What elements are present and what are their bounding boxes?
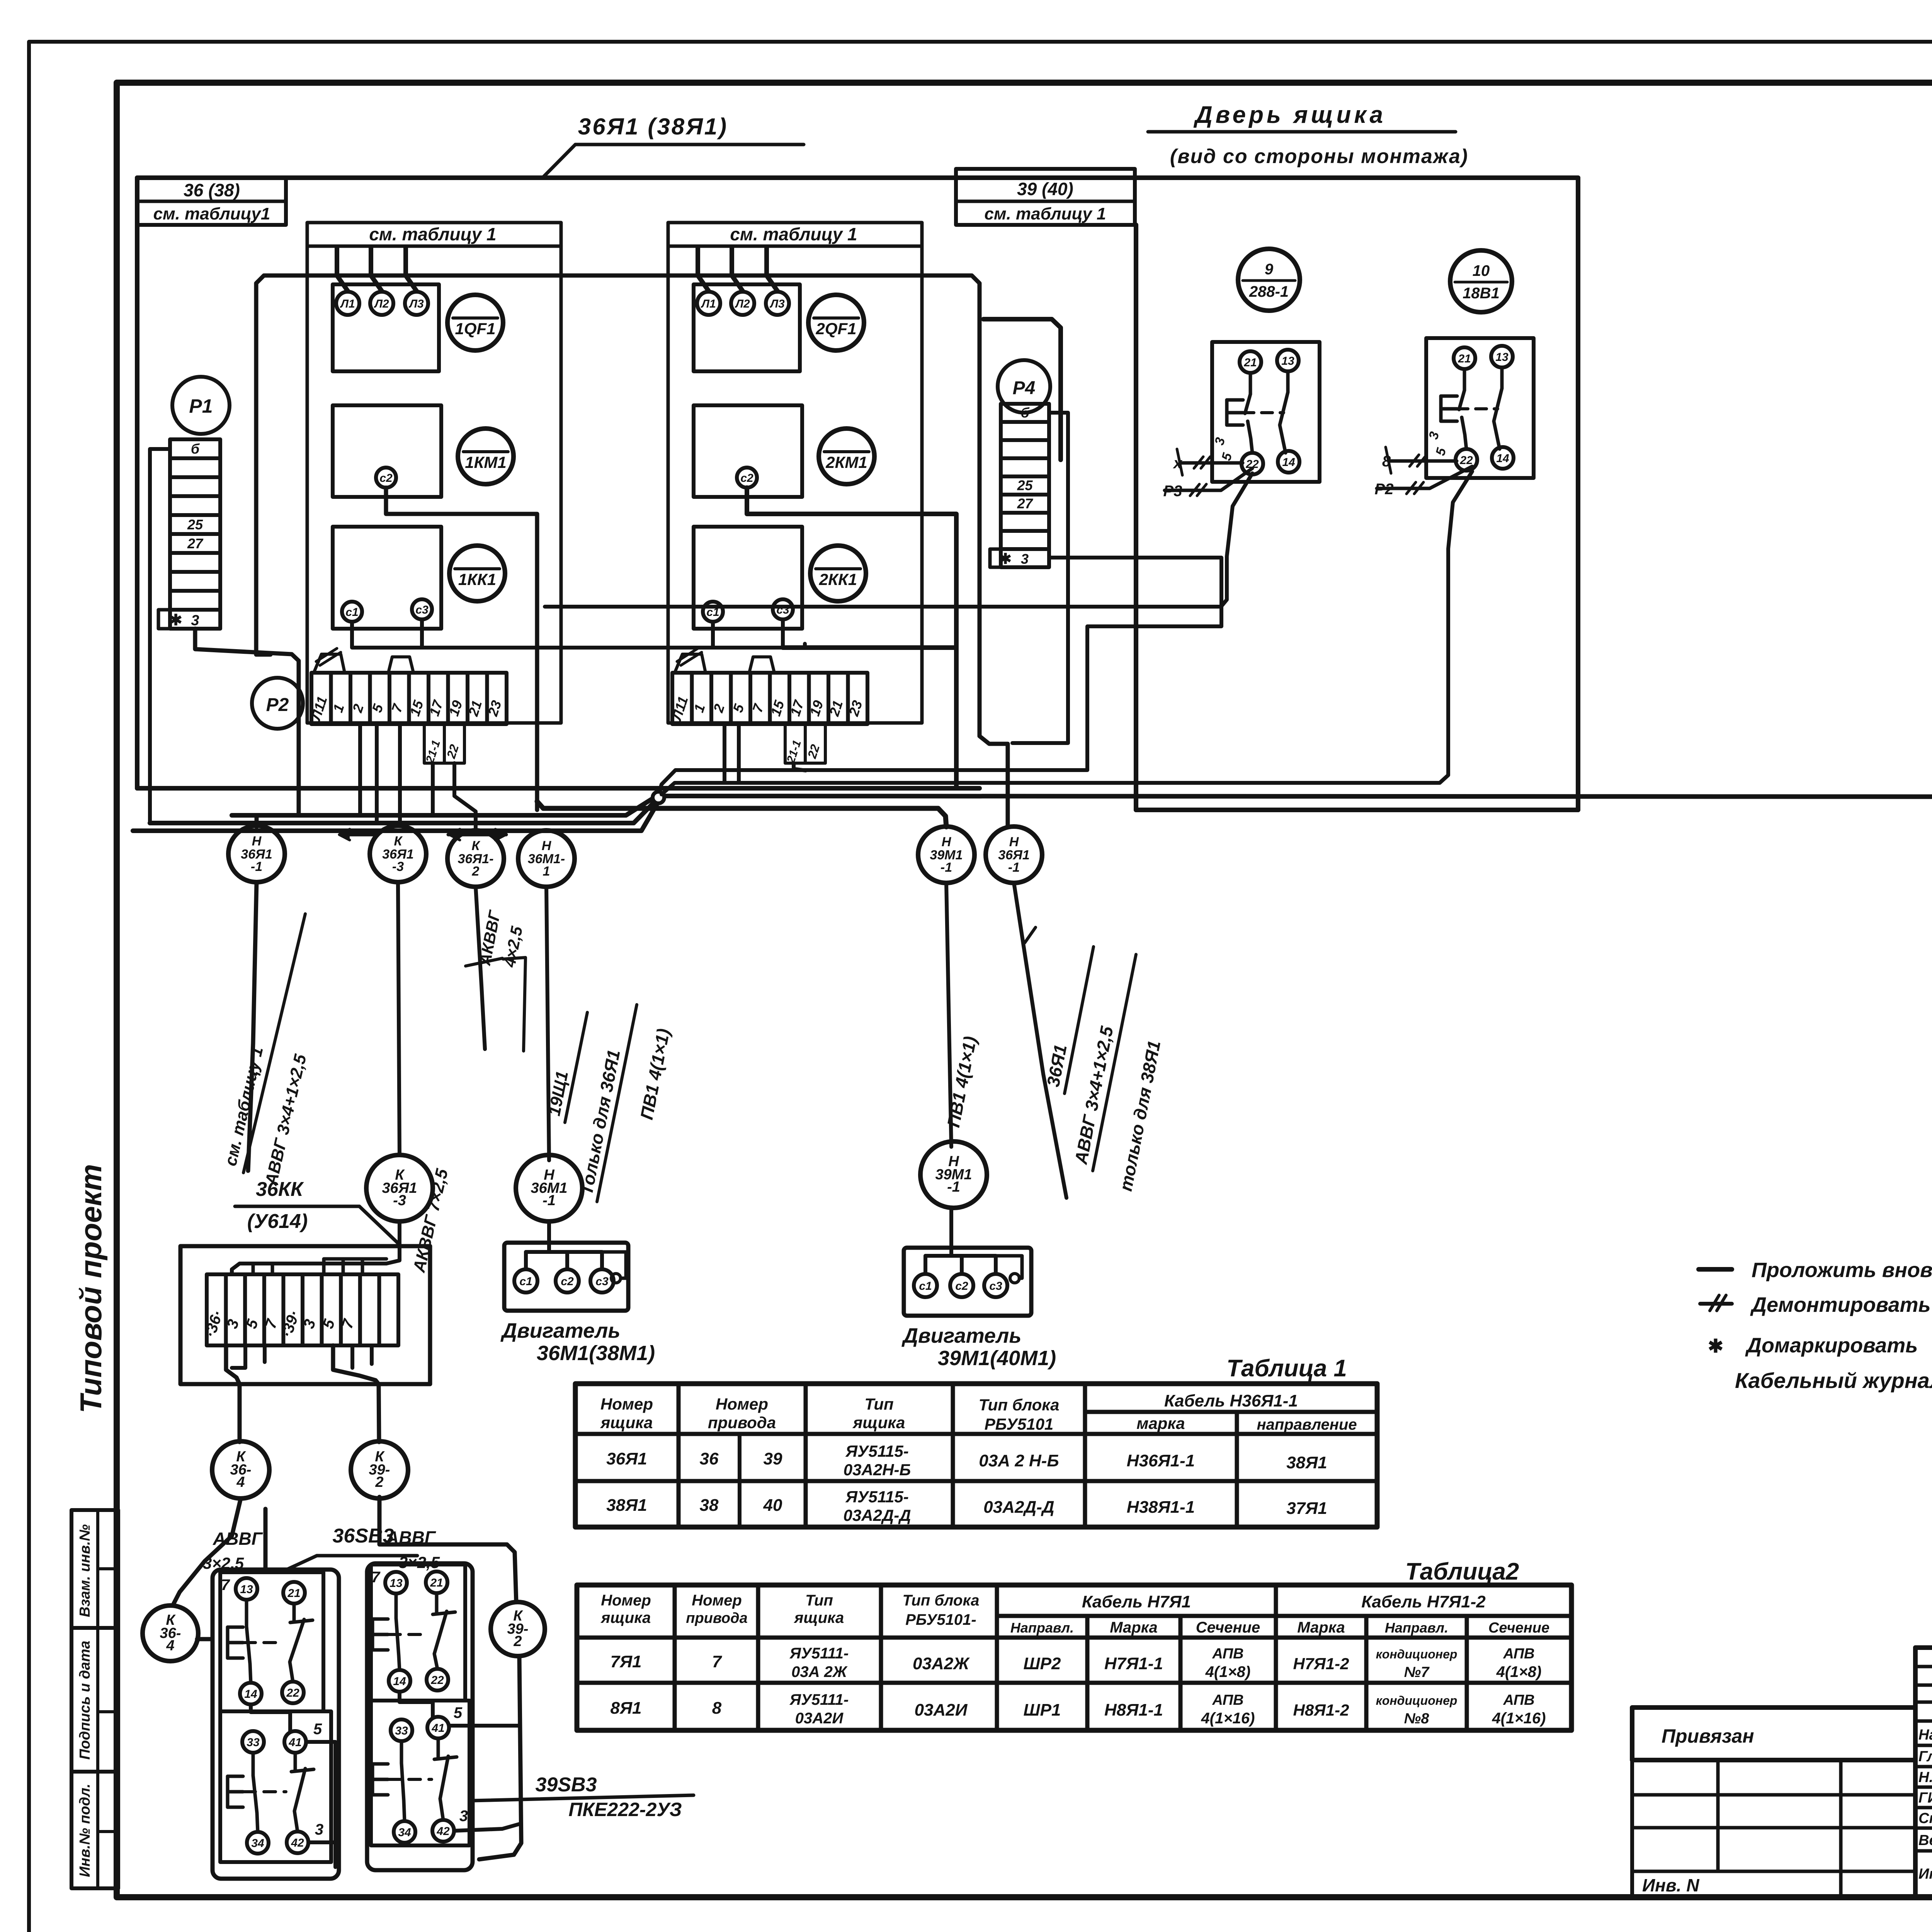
svg-text:ЯУ5111-: ЯУ5111- [789,1691,849,1708]
cap symbol on strip 2 cell 7 [749,657,774,673]
svg-text:Демонтировать: Демонтировать [1750,1293,1931,1316]
names rows [1915,1744,1932,1747]
contact pin 13 [385,1572,407,1594]
wire c1-c3 2 bottom link [713,622,783,648]
svg-text:ПКЕ222-2УЗ: ПКЕ222-2УЗ [568,1799,682,1820]
svg-text:Л1: Л1 [340,298,355,310]
svg-text:ЯУ5115-: ЯУ5115- [845,1488,908,1506]
cable tag Н 36Я1-1 [228,826,285,882]
cable tag К 36Я1-2 [447,830,504,887]
svg-text:Номер: Номер [601,1592,651,1609]
svg-text:36 (38): 36 (38) [184,180,240,200]
dashed coupling line [244,1790,286,1793]
svg-text:39: 39 [764,1449,782,1468]
svg-text:7: 7 [712,1652,723,1671]
svg-text:3: 3 [191,612,199,629]
svg-text:13: 13 [1495,351,1509,364]
svg-text:Тип: Тип [805,1592,833,1609]
svg-text:✱: ✱ [999,551,1012,567]
inner frame lower group 39SВ3 [371,1701,469,1845]
svg-text:АПВ: АПВ [1212,1646,1243,1662]
svg-text:ящика: ящика [852,1413,905,1432]
svg-text:см. таблицу 1: см. таблицу 1 [985,204,1106,223]
motor loop junction [611,1274,621,1283]
svg-text:Тип блока: Тип блока [903,1592,980,1609]
device group 1 (см. таблицу 1 box) [307,223,561,723]
svg-text:ящика: ящика [600,1609,651,1626]
svg-text:38: 38 [700,1496,719,1515]
svg-text:39 (40): 39 (40) [1017,179,1073,199]
label box 39 (40) / см. таблицу 1 (middle) [956,169,1135,225]
motor 39М1 earth loop [996,1256,1022,1278]
wire loop from strip bottom to P2 region [195,629,299,815]
svg-text:39SВ3: 39SВ3 [536,1774,597,1796]
motor terminal c3 [590,1269,614,1293]
svg-text:Р2: Р2 [1375,481,1394,498]
cable tag К 36-4 (button) [143,1605,198,1661]
left attachment box Привязан [1632,1708,1915,1760]
wire 3 from pin42 block2 [454,1824,520,1831]
actuator E-bracket [1225,400,1229,425]
svg-text:ящика: ящика [600,1413,653,1432]
P4 tag circle (middle) [998,360,1050,413]
svg-text:К: К [394,834,403,849]
terminal c2 of 1KM1 [376,468,396,488]
E-bracket actuator [371,1764,374,1795]
asterisk cell *3 (middle strip) [990,549,1049,567]
svg-text:-1: -1 [1008,860,1020,875]
cable К36Я1-3 run down to second tag [398,882,400,1155]
svg-text:Л3: Л3 [408,298,424,310]
cable Н36Я1-1 run down [248,882,257,1171]
contactor 2KM1 block [694,405,802,497]
wire from block2 pin 22 down and left to junction [662,471,1472,794]
wire 5 from pin41 block1 [306,1742,335,1867]
pin 22 [1456,449,1477,471]
E-bracket actuator [226,1627,230,1658]
contact pin 22 [282,1682,304,1703]
wires into motor 36М1 [547,1221,551,1233]
table 1 grid [575,1384,1377,1527]
wire below button circle К39-2 [479,1656,521,1859]
wire from б cell (middle) staircase down [1012,413,1068,743]
svg-text:Вед.инж: Вед.инж [1918,1832,1932,1849]
svg-text:Дверь ящика: Дверь ящика [1193,102,1386,128]
svg-text:2: 2 [375,1474,383,1490]
cable Н36Я1-1 (supply) run down with labels [1014,883,1066,1198]
svg-text:АПВ: АПВ [1503,1692,1534,1708]
demontage wire x at block1 pin22 [1181,461,1243,465]
svg-text:Тип: Тип [864,1395,893,1413]
svg-text:кондиционер: кондиционер [1376,1694,1458,1708]
svg-text:б: б [191,441,200,457]
svg-text:✱: ✱ [1708,1336,1723,1357]
terminal Л1 of 2QF1 [697,292,720,315]
contact pin 42 [432,1820,454,1842]
svg-text:Н.контр.: Н.контр. [1918,1769,1932,1786]
svg-text:c2: c2 [955,1280,968,1293]
svg-text:Н36Я1-1: Н36Я1-1 [1127,1451,1195,1470]
svg-text:Двигатель: Двигатель [500,1319,620,1342]
right contact blade [437,1738,440,1759]
svg-text:Н: Н [942,835,952,849]
svg-text:АПВ: АПВ [1503,1646,1534,1662]
dashed coupling line [1243,411,1284,414]
cable Н36М1-1 run down to second tag [546,887,549,1160]
svg-text:Номер: Номер [716,1395,768,1413]
wires out of 36КК down-right [333,1345,379,1442]
svg-text:Н8Я1-2: Н8Я1-2 [1293,1701,1349,1719]
demontage cap symbol on strip 1 [314,654,345,673]
wires from strip cells down to cable bundle (group1) [358,724,362,815]
right contact blade [435,1593,439,1614]
pin 22 stem [1462,417,1466,449]
svg-text:8: 8 [712,1699,722,1718]
contact pin 34 [394,1821,415,1843]
svg-text:Взам. инв.№: Взам. инв.№ [77,1524,93,1617]
svg-text:41: 41 [431,1722,444,1735]
svg-text:Н: Н [542,838,552,853]
wire from bus tee to P4 area vertical [983,319,1061,460]
svg-text:2QF1: 2QF1 [815,320,856,338]
motor block 36М1(38М1) [504,1243,628,1311]
junction circle left [653,792,664,803]
dashed coupling line [1457,407,1498,410]
svg-text:-1: -1 [947,1179,960,1195]
door lamp tag 9/288-1 [1238,249,1300,311]
svg-text:21: 21 [287,1587,300,1600]
svg-text:3: 3 [1021,551,1029,567]
left contact blade [245,1600,248,1626]
svg-text:4: 4 [166,1638,174,1654]
E-bracket actuator [371,1619,374,1650]
P1 tag circle [172,377,230,434]
svg-text:5: 5 [313,1721,322,1738]
svg-text:-1: -1 [940,860,952,875]
terminal Л1 of 1QF1 [336,292,359,315]
svg-text:c1: c1 [345,606,358,619]
svg-text:14: 14 [393,1675,406,1688]
push button station 39SВ3 envelope [367,1563,473,1870]
circuit breaker 1QF1 block [333,284,439,371]
svg-text:кондиционер: кондиционер [1376,1647,1458,1661]
cable tag Н 36М1-1 (lower) [516,1155,582,1221]
svg-text:36Я1 (38Я1): 36Я1 (38Я1) [578,114,728,139]
wires from strip cells down (group2) [723,724,726,783]
wire from button circle К36-4 to block1 [197,1637,213,1641]
svg-text:Л3: Л3 [769,298,785,310]
svg-text:Ст.инж: Ст.инж [1918,1810,1932,1827]
wire c2 group1 route to vertical [386,488,537,810]
svg-text:РБУ5101: РБУ5101 [985,1415,1054,1433]
inner frame upper group 36SВ3 [220,1572,323,1711]
P1 connector strip (б..25..27..*3) [170,439,220,629]
svg-text:03А2Д-Д: 03А2Д-Д [983,1498,1054,1517]
svg-text:3: 3 [315,1821,323,1838]
wire into block1 top [264,1509,268,1570]
svg-text:Сечение: Сечение [1488,1620,1549,1636]
svg-text:Кабель Н36Я1-1: Кабель Н36Я1-1 [1164,1391,1298,1410]
svg-text:см. таблицу 1: см. таблицу 1 [369,224,496,244]
wire from К36Я1-3 into 36КК [232,1221,400,1274]
svg-text:13: 13 [240,1583,253,1596]
svg-text:1КК1: 1КК1 [458,570,496,588]
wires into motor 39М1 [949,1208,953,1236]
wire from К39-2 tag down to button circle [379,1497,516,1602]
wire c2 group2 route [747,488,956,788]
svg-text:03А2И: 03А2И [915,1701,968,1719]
svg-text:21: 21 [430,1577,443,1589]
svg-text:Домаркировать: Домаркировать [1745,1334,1918,1357]
demontage wire 8 at block2 pin22 [1389,459,1457,463]
wire c1-c3 group2 extension to the right [783,645,956,650]
cable К36Я1-2 short run with bracket [476,887,485,1049]
contact pin 21 [426,1571,447,1593]
svg-text:Тип блока: Тип блока [979,1396,1060,1414]
svg-text:Кабельный журнал Ⅼ 69,87,88: Кабельный журнал Ⅼ 69,87,88 [1735,1368,1932,1393]
svg-text:8Я1: 8Я1 [610,1699,641,1718]
contact pin 33 [391,1719,412,1741]
svg-text:ящика: ящика [794,1609,844,1626]
svg-text:1КМ1: 1КМ1 [465,453,507,471]
terminal Л2 of 1QF1 [370,292,393,315]
contact pin 14 [389,1670,410,1692]
svg-text:Р4: Р4 [1013,378,1036,398]
svg-text:21: 21 [1243,356,1257,369]
wire from block1 pin 22 down-left to bus [545,473,1252,607]
svg-text:36Я1: 36Я1 [606,1449,647,1468]
svg-text:21: 21 [1458,352,1471,365]
terminal Л2 of 2QF1 [731,292,754,315]
left contact blade [400,1741,403,1763]
svg-text:Л1: Л1 [701,298,716,310]
svg-text:Н38Я1-1: Н38Я1-1 [1127,1498,1195,1517]
svg-text:Типовой проект: Типовой проект [74,1164,108,1413]
svg-text:Н: Н [1009,835,1019,849]
svg-text:14: 14 [244,1688,257,1701]
cap symbol on strip 1 cell 7 [388,657,413,673]
terminal strip 36КК [207,1274,398,1345]
cable tag К 36-4 [212,1441,269,1498]
cable tag Н 39М1-1 [918,827,975,883]
svg-text:2: 2 [513,1633,522,1650]
svg-text:22: 22 [430,1674,444,1687]
cable tag К 39-2 (button) [491,1602,545,1656]
svg-text:4(1×8): 4(1×8) [1205,1663,1251,1680]
left lower grid [1632,1760,1915,1897]
svg-text:34: 34 [398,1826,411,1839]
door lamp tag 10/18В1 [1450,250,1512,312]
label box 36 (38) / см. таблицу 1 [137,178,286,225]
wire 3 from pin42 block1 [308,1840,335,1844]
svg-text:37Я1: 37Я1 [1286,1499,1327,1518]
terminal c3 of 1KK1 [412,599,432,619]
direction arrow at К36Я1-3 [340,833,377,837]
svg-text:39М1(40М1): 39М1(40М1) [938,1347,1056,1370]
terminal c1 of 2KK1 [703,602,723,622]
motor terminal c1 [914,1274,937,1297]
svg-text:3×2,5: 3×2,5 [399,1553,440,1571]
svg-text:27: 27 [187,536,204,551]
motor terminal c1 [514,1269,537,1293]
svg-text:✱: ✱ [169,612,182,629]
wire from К36-4 tag down to button circle [173,1498,241,1605]
svg-text:38Я1: 38Я1 [1286,1453,1327,1472]
wires out of 36КК down-left [226,1345,240,1442]
inner top links 36КК [252,1264,255,1274]
cable bundle horizontal lines [232,798,653,815]
svg-text:марка: марка [1136,1414,1185,1432]
svg-text:Инв.№ подл.: Инв.№ подл. [77,1784,93,1877]
device circle 1КМ1 [458,429,514,484]
cable Н39М1-1 run down to second tag [946,883,951,1147]
svg-text:14: 14 [1282,456,1295,469]
terminal block 36КК box [180,1246,430,1384]
svg-text:Номер: Номер [692,1592,742,1609]
svg-text:7: 7 [371,1569,381,1586]
cable tag Н 36Я1-1 (supply) [986,827,1042,883]
svg-text:3: 3 [459,1808,468,1825]
svg-text:03А2И: 03А2И [795,1710,844,1727]
svg-text:см. таблицу1: см. таблицу1 [153,204,270,223]
svg-text:Кабель Н7Я1: Кабель Н7Я1 [1082,1592,1191,1611]
svg-text:14: 14 [1496,452,1509,465]
svg-text:-1: -1 [543,1192,556,1209]
svg-text:33: 33 [395,1725,408,1737]
svg-text:РБУ5101-: РБУ5101- [905,1611,976,1628]
door switch block [1212,342,1320,482]
svg-text:36М1(38М1): 36М1(38М1) [537,1342,655,1365]
push button station 36SВ3 envelope [213,1570,339,1879]
svg-text:ГИП: ГИП [1918,1790,1932,1806]
wire from *3 cell (middle) staircase to junction [659,558,1221,794]
svg-text:10: 10 [1473,262,1490,279]
svg-text:36: 36 [700,1449,719,1468]
direction arrows at К36Я1-2 [448,833,506,837]
terminal Л3 of 2QF1 [766,292,789,315]
svg-text:40: 40 [763,1496,782,1515]
svg-text:25: 25 [1017,477,1033,493]
terminal strip sub-cells 21-1 / 22 group1 [424,724,464,763]
svg-text:№7: №7 [1404,1664,1430,1680]
svg-text:22: 22 [286,1687,299,1699]
motor 36М1 earth loop [602,1252,626,1278]
circuit breaker 2QF1 block [694,284,800,371]
motor loop junction [1010,1274,1019,1283]
thermal relay 2KK1 block [694,527,802,629]
svg-text:Р3: Р3 [1163,483,1182,500]
pin 22 stem [1248,421,1252,453]
terminal Л3 of 1QF1 [405,292,428,315]
svg-text:c2: c2 [740,472,753,485]
svg-text:25: 25 [187,517,203,532]
switch contact symbol [1463,369,1466,390]
pin 21 [1454,347,1475,369]
stub from bundle to tag Н36Я1-1 [255,815,259,827]
device circle 1КК1 [449,546,505,601]
Л-bus of enclosure 1 with corner elbows [256,276,980,726]
thermal relay 1KK1 block [333,527,441,629]
svg-text:Двигатель: Двигатель [901,1324,1021,1347]
svg-text:ШР2: ШР2 [1024,1654,1061,1673]
svg-text:ЯУ5111-: ЯУ5111- [789,1645,849,1662]
svg-text:Гл.спец.: Гл.спец. [1918,1748,1932,1765]
cable tag К 39-2 [351,1441,408,1498]
motor block 39М1(40М1) [904,1248,1031,1316]
svg-text:ШР1: ШР1 [1024,1701,1061,1719]
dashed coupling line [244,1641,281,1644]
pin 21 [1240,351,1261,373]
svg-text:1QF1: 1QF1 [455,320,495,338]
margin stamp strip: Взам. инв.№ / Подпись и дата / Инв.№ подл. [71,1510,118,1888]
svg-text:привода: привода [708,1413,776,1432]
svg-text:(вид со стороны монтажа): (вид со стороны монтажа) [1170,145,1468,168]
svg-text:Таблица 1: Таблица 1 [1226,1355,1347,1382]
device circle 2QF1 [808,295,864,350]
contact pin 41 [284,1731,306,1753]
svg-text:2: 2 [472,864,480,879]
cable tag Н 39М1-1 (lower) [920,1141,987,1208]
inner frame upper group 39SВ3 [371,1565,465,1701]
svg-text:-3: -3 [393,1192,406,1209]
contact pin 33 [242,1731,264,1753]
svg-text:4(1×16): 4(1×16) [1492,1710,1546,1727]
actuator E-bracket [1439,396,1443,421]
svg-text:Привязан: Привязан [1662,1725,1754,1747]
contact pin 42 [287,1832,308,1853]
svg-text:(У614): (У614) [247,1210,308,1233]
contact pin 21 [283,1582,305,1604]
left contact blade [395,1594,398,1618]
svg-text:34: 34 [251,1837,264,1850]
thick cable line to Н39М1-1 [537,801,946,827]
svg-text:38Я1: 38Я1 [606,1496,647,1515]
svg-text:c3: c3 [595,1275,609,1288]
wire drops from bus to Л1 Л2 Л3 of 2QF1 [698,247,709,291]
device circle 2КК1 [810,546,866,601]
svg-text:5: 5 [454,1704,463,1721]
demontage wire Р3 at block1 [1165,468,1252,490]
svg-text:Номер: Номер [600,1395,653,1413]
svg-text:Таблица2: Таблица2 [1405,1558,1519,1585]
svg-text:Нач.отд.: Нач.отд. [1918,1727,1932,1743]
device circle 1QF1 [447,295,503,350]
P4 connector strip [1001,404,1049,567]
long cable line to right section [662,796,1932,804]
svg-text:33: 33 [247,1736,260,1749]
svg-text:Инв. N: Инв. N [1642,1875,1699,1895]
cable tag К 36Я1-3 (lower) [366,1155,433,1221]
asterisk cell *3 [158,610,220,629]
svg-text:Н7Я1-2: Н7Я1-2 [1293,1655,1349,1673]
svg-text:2КК1: 2КК1 [819,570,857,588]
svg-text:Подпись и дата: Подпись и дата [77,1641,93,1760]
svg-text:9: 9 [1265,261,1274,278]
svg-text:Проложить вновь: Проложить вновь [1752,1259,1932,1282]
svg-text:Л2: Л2 [735,298,750,310]
table 2 grid [577,1585,1571,1730]
legend: demontage symbol [1700,1302,1732,1306]
cable tag Н 36М1-1 [518,830,575,887]
pin 13 [1277,350,1299,371]
svg-text:03А2Н-Б: 03А2Н-Б [844,1461,911,1479]
switch contact symbol [1249,373,1252,394]
svg-text:03А2Д-Д: 03А2Д-Д [843,1506,911,1524]
svg-text:36КК: 36КК [256,1178,304,1201]
terminal strip sub-cells group2 [785,724,825,763]
svg-text:27: 27 [1017,495,1033,511]
P2 tag circle [252,678,303,729]
